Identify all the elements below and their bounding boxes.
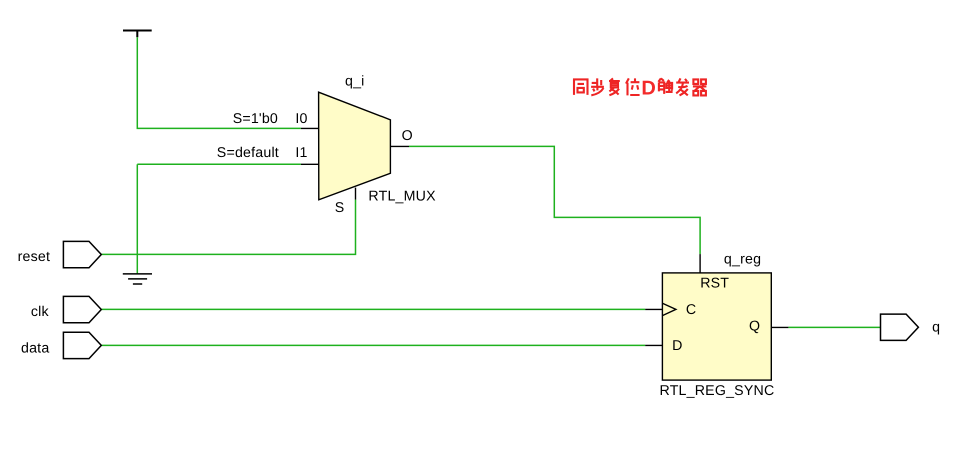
register pin stub Q bbox=[771, 326, 788, 328]
mux pin stub S bbox=[355, 188, 357, 200]
ground symbol bbox=[123, 274, 152, 284]
register clock triangle bbox=[662, 303, 676, 315]
register pin stub RST bbox=[699, 254, 701, 273]
register pin stub D bbox=[645, 344, 662, 346]
mux pin stub I0 bbox=[301, 127, 319, 129]
svg-text:I1: I1 bbox=[295, 145, 307, 161]
svg-text:S: S bbox=[335, 200, 345, 216]
output port q bbox=[881, 314, 919, 340]
svg-text:q_reg: q_reg bbox=[724, 251, 761, 267]
wire O net from mux to register RST bbox=[409, 146, 700, 254]
svg-text:RST: RST bbox=[700, 276, 729, 292]
input port data bbox=[63, 332, 101, 358]
red title char 步 bbox=[591, 78, 604, 95]
mux pin stub I1 bbox=[301, 163, 319, 165]
red title char 触 bbox=[658, 78, 672, 94]
wire q output bbox=[788, 326, 880, 328]
register pin stub C bbox=[645, 308, 662, 310]
wire reset to S bbox=[101, 200, 355, 255]
svg-text:O: O bbox=[402, 128, 413, 144]
mux RTL_MUX q_i body bbox=[319, 92, 391, 200]
svg-text:C: C bbox=[686, 302, 696, 318]
svg-text:Q: Q bbox=[749, 319, 760, 335]
wire I1 horizontal bbox=[137, 163, 301, 165]
input port clk bbox=[63, 296, 101, 322]
svg-text:S=default: S=default bbox=[217, 145, 279, 161]
svg-text:data: data bbox=[21, 341, 49, 357]
svg-text:S=1'b0: S=1'b0 bbox=[233, 111, 278, 127]
wire net I1/reset/ground vertical bbox=[136, 164, 138, 273]
wire net I0 from VCC bbox=[137, 37, 301, 128]
svg-text:RTL_MUX: RTL_MUX bbox=[368, 189, 436, 205]
red title char 发 bbox=[676, 78, 689, 95]
power supply symbol VCC bbox=[123, 31, 152, 38]
svg-text:D: D bbox=[641, 78, 655, 100]
svg-text:reset: reset bbox=[18, 249, 51, 265]
svg-text:D: D bbox=[672, 338, 682, 354]
wire clk bbox=[101, 308, 645, 310]
svg-text:RTL_REG_SYNC: RTL_REG_SYNC bbox=[660, 383, 775, 399]
red title char 器 bbox=[693, 79, 707, 95]
register RTL_REG_SYNC q_reg body bbox=[662, 273, 771, 380]
svg-text:clk: clk bbox=[31, 304, 50, 320]
svg-text:q_i: q_i bbox=[345, 74, 365, 90]
input port reset bbox=[63, 241, 101, 267]
svg-text:I0: I0 bbox=[295, 111, 307, 127]
red title char 复 bbox=[609, 78, 620, 95]
red title char 位 bbox=[626, 78, 640, 95]
mux pin stub O bbox=[390, 145, 409, 147]
red title char 同 bbox=[574, 79, 588, 95]
svg-text:q: q bbox=[932, 320, 940, 336]
wire data bbox=[101, 344, 645, 346]
